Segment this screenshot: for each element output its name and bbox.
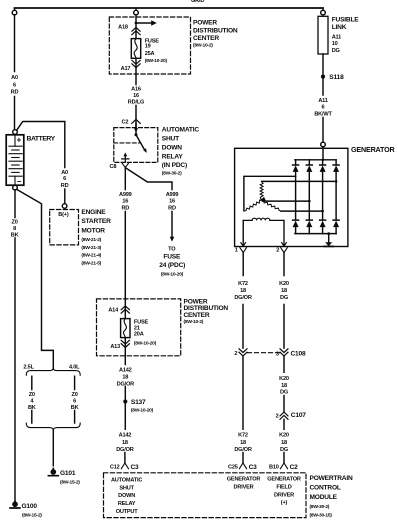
svg-text:A16: A16 — [131, 87, 141, 93]
wire top bus — [15, 7, 324, 9]
svg-text:DG/OR: DG/OR — [117, 382, 134, 388]
svg-text:+: + — [17, 136, 22, 145]
svg-text:A18: A18 — [118, 25, 128, 31]
svg-text:DG: DG — [280, 447, 288, 453]
svg-text:SHUT: SHUT — [119, 485, 134, 491]
engine starter motor box — [50, 210, 79, 245]
svg-text:BK: BK — [28, 405, 36, 411]
node junction A18 branch — [135, 22, 138, 25]
svg-text:(8W-30-15): (8W-30-15) — [310, 513, 333, 519]
svg-text:(IN PDC): (IN PDC) — [162, 162, 187, 169]
svg-text:GENERATOR: GENERATOR — [267, 477, 301, 483]
svg-text:MODULE: MODULE — [310, 494, 338, 501]
svg-text:C107: C107 — [291, 412, 306, 419]
wire B+ into rectifier — [322, 147, 324, 160]
svg-text:4.0L: 4.0L — [69, 365, 80, 371]
wire to G101 — [52, 430, 54, 466]
power distribution center box 1 — [109, 17, 190, 74]
label TO FUSE 24 (PDC) — [159, 247, 185, 278]
powertrain control module box — [104, 473, 307, 518]
wire A11 6 BK/WT — [322, 79, 324, 143]
svg-text:1: 1 — [235, 247, 238, 253]
wire battery positive jumper to starter — [17, 122, 65, 204]
label POWER DISTRIBUTION CENTER — [193, 20, 238, 49]
splice S137 — [123, 399, 127, 403]
svg-text:(8W-15-2): (8W-15-2) — [22, 512, 42, 518]
svg-text:25A: 25A — [145, 51, 155, 57]
wire Z0 battery negative — [14, 190, 16, 501]
label FUSE 21 20A — [134, 319, 157, 346]
svg-text:A142: A142 — [119, 368, 132, 374]
wire branch arrow — [136, 22, 152, 24]
svg-text:A142: A142 — [119, 433, 132, 439]
connector chevrons A14 — [121, 306, 129, 313]
svg-text:18: 18 — [281, 288, 287, 294]
svg-text:(8W-21-5): (8W-21-5) — [81, 261, 101, 267]
svg-text:18: 18 — [240, 440, 246, 446]
svg-text:G101: G101 — [60, 470, 76, 477]
rectifier bottom bus — [295, 233, 336, 235]
connector C25/C3 — [239, 463, 246, 469]
svg-text:C108: C108 — [291, 350, 306, 357]
svg-text:GRID: GRID — [191, 0, 204, 4]
svg-text:K20: K20 — [279, 376, 289, 382]
svg-text:CONTROL: CONTROL — [310, 485, 341, 492]
svg-text:(8W-21-3): (8W-21-3) — [81, 245, 101, 251]
svg-text:(8W-21-2): (8W-21-2) — [81, 237, 101, 243]
wire A142 18 DG/OR — [124, 338, 126, 400]
svg-text:G100: G100 — [22, 503, 38, 510]
diode D3 — [320, 160, 326, 234]
wire K72 lower — [242, 356, 244, 463]
ground G100 — [13, 502, 17, 506]
svg-text:6: 6 — [63, 176, 66, 182]
svg-text:DG: DG — [280, 295, 288, 301]
svg-text:−: − — [17, 177, 22, 186]
svg-text:A11: A11 — [332, 35, 341, 41]
label Z0 8 BK — [11, 220, 19, 239]
brace engine split lower — [26, 423, 80, 430]
svg-text:RELAY: RELAY — [162, 153, 184, 160]
svg-text:A13: A13 — [110, 344, 120, 350]
svg-text:C3: C3 — [131, 464, 140, 471]
label A0 6 RD — [11, 75, 19, 96]
label POWER DISTRIBUTION CENTER — [184, 299, 229, 326]
svg-text:CENTER: CENTER — [193, 35, 219, 42]
svg-text:6: 6 — [73, 399, 76, 405]
svg-text:6: 6 — [13, 82, 16, 88]
node battery feed left — [14, 9, 16, 11]
wire A16 16 RD/LG — [135, 58, 137, 127]
svg-text:POWER: POWER — [193, 20, 217, 27]
svg-text:RD: RD — [121, 205, 129, 211]
svg-text:2: 2 — [276, 247, 279, 253]
wire K72 18 DG/OR — [242, 253, 244, 349]
power distribution center box 2 — [97, 299, 181, 356]
svg-text:ENGINE: ENGINE — [81, 209, 106, 216]
svg-text:(+): (+) — [281, 500, 288, 506]
generator terminal 2 — [282, 220, 287, 246]
svg-text:2.5L: 2.5L — [23, 365, 34, 371]
svg-text:BATTERY: BATTERY — [27, 135, 56, 142]
svg-text:GENERATOR: GENERATOR — [227, 477, 261, 483]
diode D2 — [306, 160, 312, 234]
svg-text:FIELD: FIELD — [276, 485, 291, 491]
stator winding phase C lead — [281, 210, 323, 212]
svg-text:18: 18 — [240, 288, 246, 294]
wire A0 battery positive — [14, 15, 16, 130]
ground G101 — [51, 470, 55, 474]
connector C12/C3 — [121, 463, 128, 469]
wire battery negative branch — [17, 189, 54, 367]
connector chevrons A17 — [132, 60, 140, 67]
wire fusible link to S118 — [322, 54, 324, 75]
svg-text:RD: RD — [168, 205, 176, 211]
svg-text:GENERATOR: GENERATOR — [351, 145, 395, 154]
label A0 6 RD — [61, 170, 69, 189]
svg-text:(8W-10-20): (8W-10-20) — [145, 58, 168, 64]
wire PDC feed — [135, 15, 137, 39]
svg-text:RD: RD — [61, 183, 69, 189]
svg-text:Z0: Z0 — [12, 220, 18, 226]
svg-text:DRIVER: DRIVER — [234, 485, 254, 491]
wire K20 18 DG — [283, 253, 285, 349]
svg-text:AUTOMATIC: AUTOMATIC — [162, 126, 200, 133]
svg-text:(8W-10-2): (8W-10-2) — [193, 43, 213, 49]
svg-text:S137: S137 — [131, 399, 146, 406]
svg-text:CENTER: CENTER — [184, 312, 210, 319]
svg-text:16: 16 — [133, 93, 139, 99]
svg-text:BK: BK — [11, 233, 19, 239]
svg-text:2: 2 — [234, 351, 237, 357]
svg-text:OUTPUT: OUTPUT — [116, 509, 139, 515]
svg-text:K20: K20 — [279, 281, 289, 287]
wire A142 18 DG/OR lower — [124, 404, 126, 463]
wire Z0 4 BK — [31, 376, 33, 423]
fusible link — [318, 16, 328, 54]
svg-text:(8W-15-2): (8W-15-2) — [60, 480, 80, 486]
svg-text:RD/LG: RD/LG — [128, 100, 144, 106]
svg-text:A999: A999 — [119, 192, 132, 198]
svg-text:16: 16 — [169, 199, 175, 205]
svg-text:Z0: Z0 — [72, 392, 78, 398]
diode D4 — [333, 160, 339, 234]
svg-text:(8W-30-2): (8W-30-2) — [162, 171, 182, 177]
wire A999 left — [124, 168, 126, 299]
wire Z0 6 BK — [74, 376, 76, 423]
svg-text:RELAY: RELAY — [118, 501, 136, 507]
relay inner dashed line — [114, 142, 140, 144]
svg-text:A17: A17 — [121, 66, 131, 72]
svg-text:K72: K72 — [238, 433, 248, 439]
svg-text:(8W-10-20): (8W-10-20) — [161, 271, 184, 277]
stator winding coil left — [244, 200, 262, 211]
svg-text:A14: A14 — [108, 307, 119, 313]
svg-text:(8W-10-2): (8W-10-2) — [184, 319, 204, 325]
label FUSE 19 25A — [145, 38, 168, 64]
svg-text:BK/WT: BK/WT — [314, 112, 332, 118]
svg-text:DG/OR: DG/OR — [234, 295, 251, 301]
svg-text:18: 18 — [281, 383, 287, 389]
relay blade — [136, 135, 144, 150]
connector chevrons A13 — [121, 340, 129, 347]
diode D1 — [293, 160, 299, 234]
svg-text:C8: C8 — [110, 164, 117, 170]
battery B1 — [13, 130, 18, 135]
rectifier top bus — [295, 159, 336, 161]
generator terminal 1 — [241, 220, 246, 246]
svg-text:K72: K72 — [238, 281, 248, 287]
svg-text:DG: DG — [280, 389, 288, 395]
svg-text:18: 18 — [122, 440, 128, 446]
svg-text:TO: TO — [168, 247, 176, 253]
wire K20 middle — [283, 356, 285, 412]
wire A999 branch to fuse 24 — [125, 168, 172, 237]
label ENGINE STARTER MOTOR — [81, 209, 111, 266]
svg-text:(8W-30-2): (8W-30-2) — [310, 504, 330, 510]
svg-text:FUSE: FUSE — [163, 254, 181, 261]
svg-text:18: 18 — [281, 440, 287, 446]
svg-text:STARTER: STARTER — [81, 218, 111, 225]
connector B10/C2 — [280, 463, 287, 469]
svg-text:A0: A0 — [11, 75, 18, 81]
svg-text:RD: RD — [11, 90, 19, 96]
svg-text:8: 8 — [13, 226, 16, 232]
svg-text:(8W-10-20): (8W-10-20) — [131, 408, 154, 414]
svg-text:FUSIBLE: FUSIBLE — [332, 17, 360, 24]
svg-text:SHUT: SHUT — [162, 135, 179, 142]
svg-text:MOTOR: MOTOR — [81, 227, 105, 234]
svg-text:DOWN: DOWN — [118, 493, 135, 499]
svg-text:10: 10 — [332, 41, 338, 47]
svg-text:3: 3 — [276, 351, 279, 357]
svg-text:AUTOMATIC: AUTOMATIC — [111, 478, 142, 484]
node starter B+ — [62, 204, 67, 209]
svg-text:C3: C3 — [249, 464, 258, 471]
label POWERTRAIN CONTROL MODULE — [310, 475, 353, 518]
stator winding phase B lead — [262, 180, 337, 182]
relay pivot — [135, 133, 138, 136]
svg-text:2: 2 — [276, 413, 279, 419]
splice S118 — [321, 75, 325, 79]
svg-text:21: 21 — [134, 326, 140, 332]
relay fixed contact — [123, 152, 127, 156]
svg-text:B(+): B(+) — [58, 212, 69, 218]
node fusible link feed — [322, 9, 324, 11]
wire into fuse F21 — [124, 299, 126, 319]
wire K20 lower — [283, 419, 285, 463]
svg-text:A999: A999 — [166, 192, 179, 198]
connector C107 — [280, 412, 288, 419]
svg-text:DG: DG — [332, 48, 340, 54]
svg-text:Z0: Z0 — [29, 392, 35, 398]
label AUTOMATIC SHUT DOWN RELAY — [162, 126, 200, 176]
label GENERATOR FIELD DRIVER (+) — [267, 477, 301, 507]
automatic shut down relay box — [114, 128, 158, 163]
svg-text:DOWN: DOWN — [162, 144, 183, 151]
svg-text:DG/OR: DG/OR — [116, 447, 133, 453]
svg-text:19: 19 — [145, 44, 151, 50]
label GENERATOR DRIVER — [227, 477, 261, 491]
stator winding coil right — [262, 200, 281, 211]
stator winding phase A lead — [244, 176, 296, 210]
connector chevrons A18 — [132, 27, 140, 34]
svg-text:6: 6 — [322, 104, 325, 110]
fuse F19 — [131, 39, 140, 59]
svg-text:20A: 20A — [134, 332, 144, 338]
field winding L1 — [243, 218, 284, 242]
node PDC feed — [135, 9, 137, 11]
node generator B+ — [321, 142, 326, 147]
svg-text:16: 16 — [122, 199, 128, 205]
svg-text:BK: BK — [71, 405, 79, 411]
svg-text:(8W-21-4): (8W-21-4) — [81, 253, 101, 259]
brace engine split upper — [26, 368, 80, 376]
svg-text:C2: C2 — [122, 119, 129, 125]
ground generator case — [327, 232, 330, 235]
svg-text:24 (PDC): 24 (PDC) — [159, 262, 185, 269]
svg-text:A11: A11 — [318, 98, 327, 104]
svg-text:POWERTRAIN: POWERTRAIN — [310, 475, 353, 482]
svg-text:C25: C25 — [228, 465, 238, 471]
svg-text:K20: K20 — [279, 433, 289, 439]
svg-text:DRIVER: DRIVER — [274, 492, 294, 498]
stator neutral junction arrow — [260, 197, 266, 201]
stator neutral lead — [263, 200, 310, 202]
svg-text:18: 18 — [122, 375, 128, 381]
connector C2 chevron — [132, 119, 140, 123]
svg-text:C12: C12 — [110, 465, 120, 471]
svg-text:C2: C2 — [290, 464, 299, 471]
svg-text:DISTRIBUTION: DISTRIBUTION — [193, 27, 238, 34]
stator winding coil B — [260, 181, 263, 199]
svg-text:LINK: LINK — [332, 24, 347, 31]
svg-text:DG/OR: DG/OR — [234, 447, 251, 453]
generator U1 box — [235, 148, 348, 246]
connector C108 — [248, 352, 280, 354]
svg-text:B10: B10 — [269, 465, 279, 471]
fuse F21 — [121, 319, 130, 338]
svg-text:FUSE: FUSE — [134, 319, 149, 325]
connector C8 — [122, 164, 128, 168]
label AUTOMATIC SHUT DOWN RELAY OUTPUT — [111, 478, 142, 516]
svg-text:S118: S118 — [329, 74, 344, 81]
svg-text:(8W-10-20): (8W-10-20) — [134, 341, 157, 347]
relay pin arrow from C2 — [134, 128, 138, 132]
